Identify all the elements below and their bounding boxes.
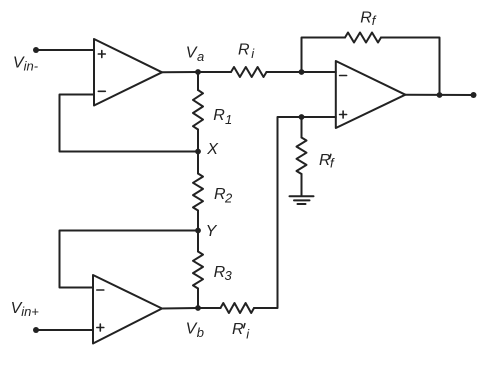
label R3 (214, 264, 233, 283)
wire U3 output (405, 94, 473, 96)
wire U1 output to node Va (162, 71, 198, 73)
wire Va to R1 (197, 72, 199, 90)
svg-text:b: b (197, 325, 204, 340)
label Ri (238, 42, 255, 62)
node X (195, 149, 201, 155)
resistor Ri (231, 67, 267, 77)
wire X to R2 (197, 152, 199, 174)
node Vin+ input terminal (33, 327, 39, 333)
label Vb (186, 321, 204, 340)
svg-text:f: f (330, 156, 335, 171)
resistor R2 (193, 174, 203, 211)
wire Vin- to U1 + input (36, 49, 94, 51)
wire R3 to Vb (197, 289, 199, 309)
label Vin- (13, 55, 39, 74)
svg-text:V: V (186, 44, 198, 61)
wire R'f to ground (301, 174, 303, 196)
svg-text:2: 2 (224, 190, 233, 205)
svg-text:a: a (197, 49, 204, 64)
svg-text:in-: in- (24, 58, 39, 73)
wire R1 to X (197, 130, 199, 152)
ground (290, 196, 314, 204)
wire R'i up to U3 + input (254, 117, 336, 308)
resistor Rf (345, 33, 381, 43)
wire Y to R3 (197, 231, 199, 252)
wire R2 to Y (197, 211, 199, 231)
op-amp U2 (93, 275, 162, 344)
svg-text:R: R (213, 107, 225, 124)
svg-text:Y: Y (206, 223, 218, 240)
wire U2 output to Vb (162, 307, 198, 310)
label R'f (319, 152, 335, 171)
resistor R1 (193, 90, 203, 130)
svg-text:R: R (238, 42, 250, 59)
op-amp U1 (94, 39, 162, 106)
wire Vb to R'i (198, 307, 221, 309)
node at U3 - input / Rf junction (299, 69, 305, 75)
wire U1 - input feedback from node X (60, 95, 199, 152)
wire Va to Ri (198, 71, 231, 73)
svg-text:X: X (206, 141, 219, 158)
node Vb (195, 305, 201, 311)
wire U2 - input feedback from node Y (60, 231, 199, 288)
resistor R'i (221, 303, 255, 313)
label Rf (360, 9, 377, 28)
resistor R'f (297, 138, 307, 175)
wire Rf loop left vertical (302, 38, 346, 73)
resistor R3 (193, 252, 203, 289)
svg-text:i: i (246, 326, 250, 341)
svg-text:R: R (232, 321, 244, 338)
node Vin- input terminal (33, 47, 39, 53)
svg-text:f: f (372, 13, 377, 28)
label Va (186, 44, 204, 64)
label R1 (213, 107, 232, 127)
label R'i (232, 321, 250, 341)
svg-text:3: 3 (225, 268, 233, 283)
wire R'f from U3 + node (301, 117, 303, 138)
node Va (195, 69, 201, 75)
svg-text:1: 1 (225, 112, 232, 127)
svg-text:i: i (251, 46, 255, 61)
svg-text:R: R (360, 9, 372, 26)
node output terminal (471, 92, 477, 98)
wire Rf to output junction (381, 38, 440, 96)
wire Ri to U3 - input (267, 71, 336, 73)
wire Vin+ to U2 + input (36, 329, 93, 331)
svg-text:in+: in+ (21, 304, 39, 319)
node at U3 + input (299, 114, 305, 120)
label Vin+ (11, 300, 40, 319)
label R2 (214, 186, 233, 205)
node output/Rf junction (437, 92, 443, 98)
op-amp U3 (336, 61, 406, 128)
node Y (195, 228, 201, 234)
